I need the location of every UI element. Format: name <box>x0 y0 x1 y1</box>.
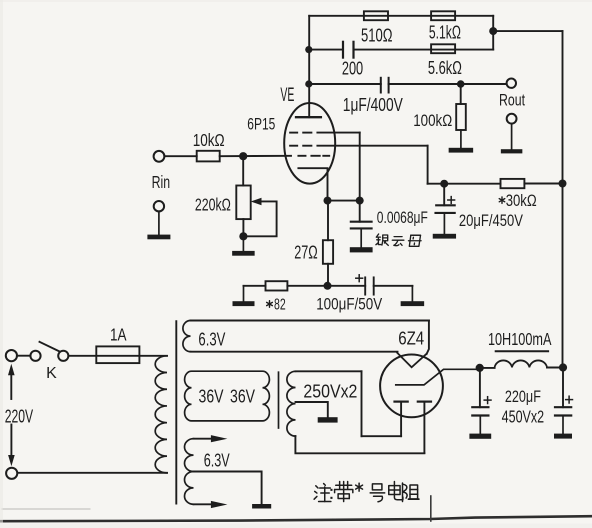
svg-text:0.0068μF: 0.0068μF <box>377 208 428 227</box>
svg-text:220V: 220V <box>5 406 34 427</box>
svg-text:6Z4: 6Z4 <box>398 328 424 349</box>
svg-text:510Ω: 510Ω <box>361 25 393 45</box>
svg-text:10kΩ: 10kΩ <box>193 130 225 150</box>
svg-text:6.3V: 6.3V <box>204 451 230 471</box>
svg-text:5.1kΩ: 5.1kΩ <box>429 22 461 42</box>
svg-text:36V: 36V <box>199 387 224 407</box>
svg-text:VE: VE <box>280 85 294 106</box>
svg-text:30kΩ: 30kΩ <box>506 191 537 210</box>
svg-text:450Vx2: 450Vx2 <box>502 406 545 426</box>
svg-text:27Ω: 27Ω <box>294 243 318 263</box>
svg-text:1A: 1A <box>110 324 127 344</box>
svg-text:20μF/450V: 20μF/450V <box>459 211 524 230</box>
svg-text:Rout: Rout <box>499 91 525 110</box>
svg-text:220kΩ: 220kΩ <box>195 194 231 214</box>
svg-text:K: K <box>46 365 57 382</box>
svg-text:6.3V: 6.3V <box>198 330 225 350</box>
svg-text:82: 82 <box>274 297 286 314</box>
svg-text:5.6kΩ: 5.6kΩ <box>428 58 462 78</box>
svg-text:100μF/50V: 100μF/50V <box>316 296 382 314</box>
svg-text:36V: 36V <box>230 387 255 407</box>
svg-text:100kΩ: 100kΩ <box>413 111 452 130</box>
svg-text:10H100mA: 10H100mA <box>488 329 552 349</box>
svg-text:1μF/400V: 1μF/400V <box>343 95 403 115</box>
svg-text:250Vx2: 250Vx2 <box>303 382 357 402</box>
svg-text:Rin: Rin <box>152 172 171 192</box>
svg-text:6P15: 6P15 <box>247 115 275 133</box>
svg-text:220μF: 220μF <box>505 387 541 406</box>
svg-text:200: 200 <box>342 58 363 78</box>
